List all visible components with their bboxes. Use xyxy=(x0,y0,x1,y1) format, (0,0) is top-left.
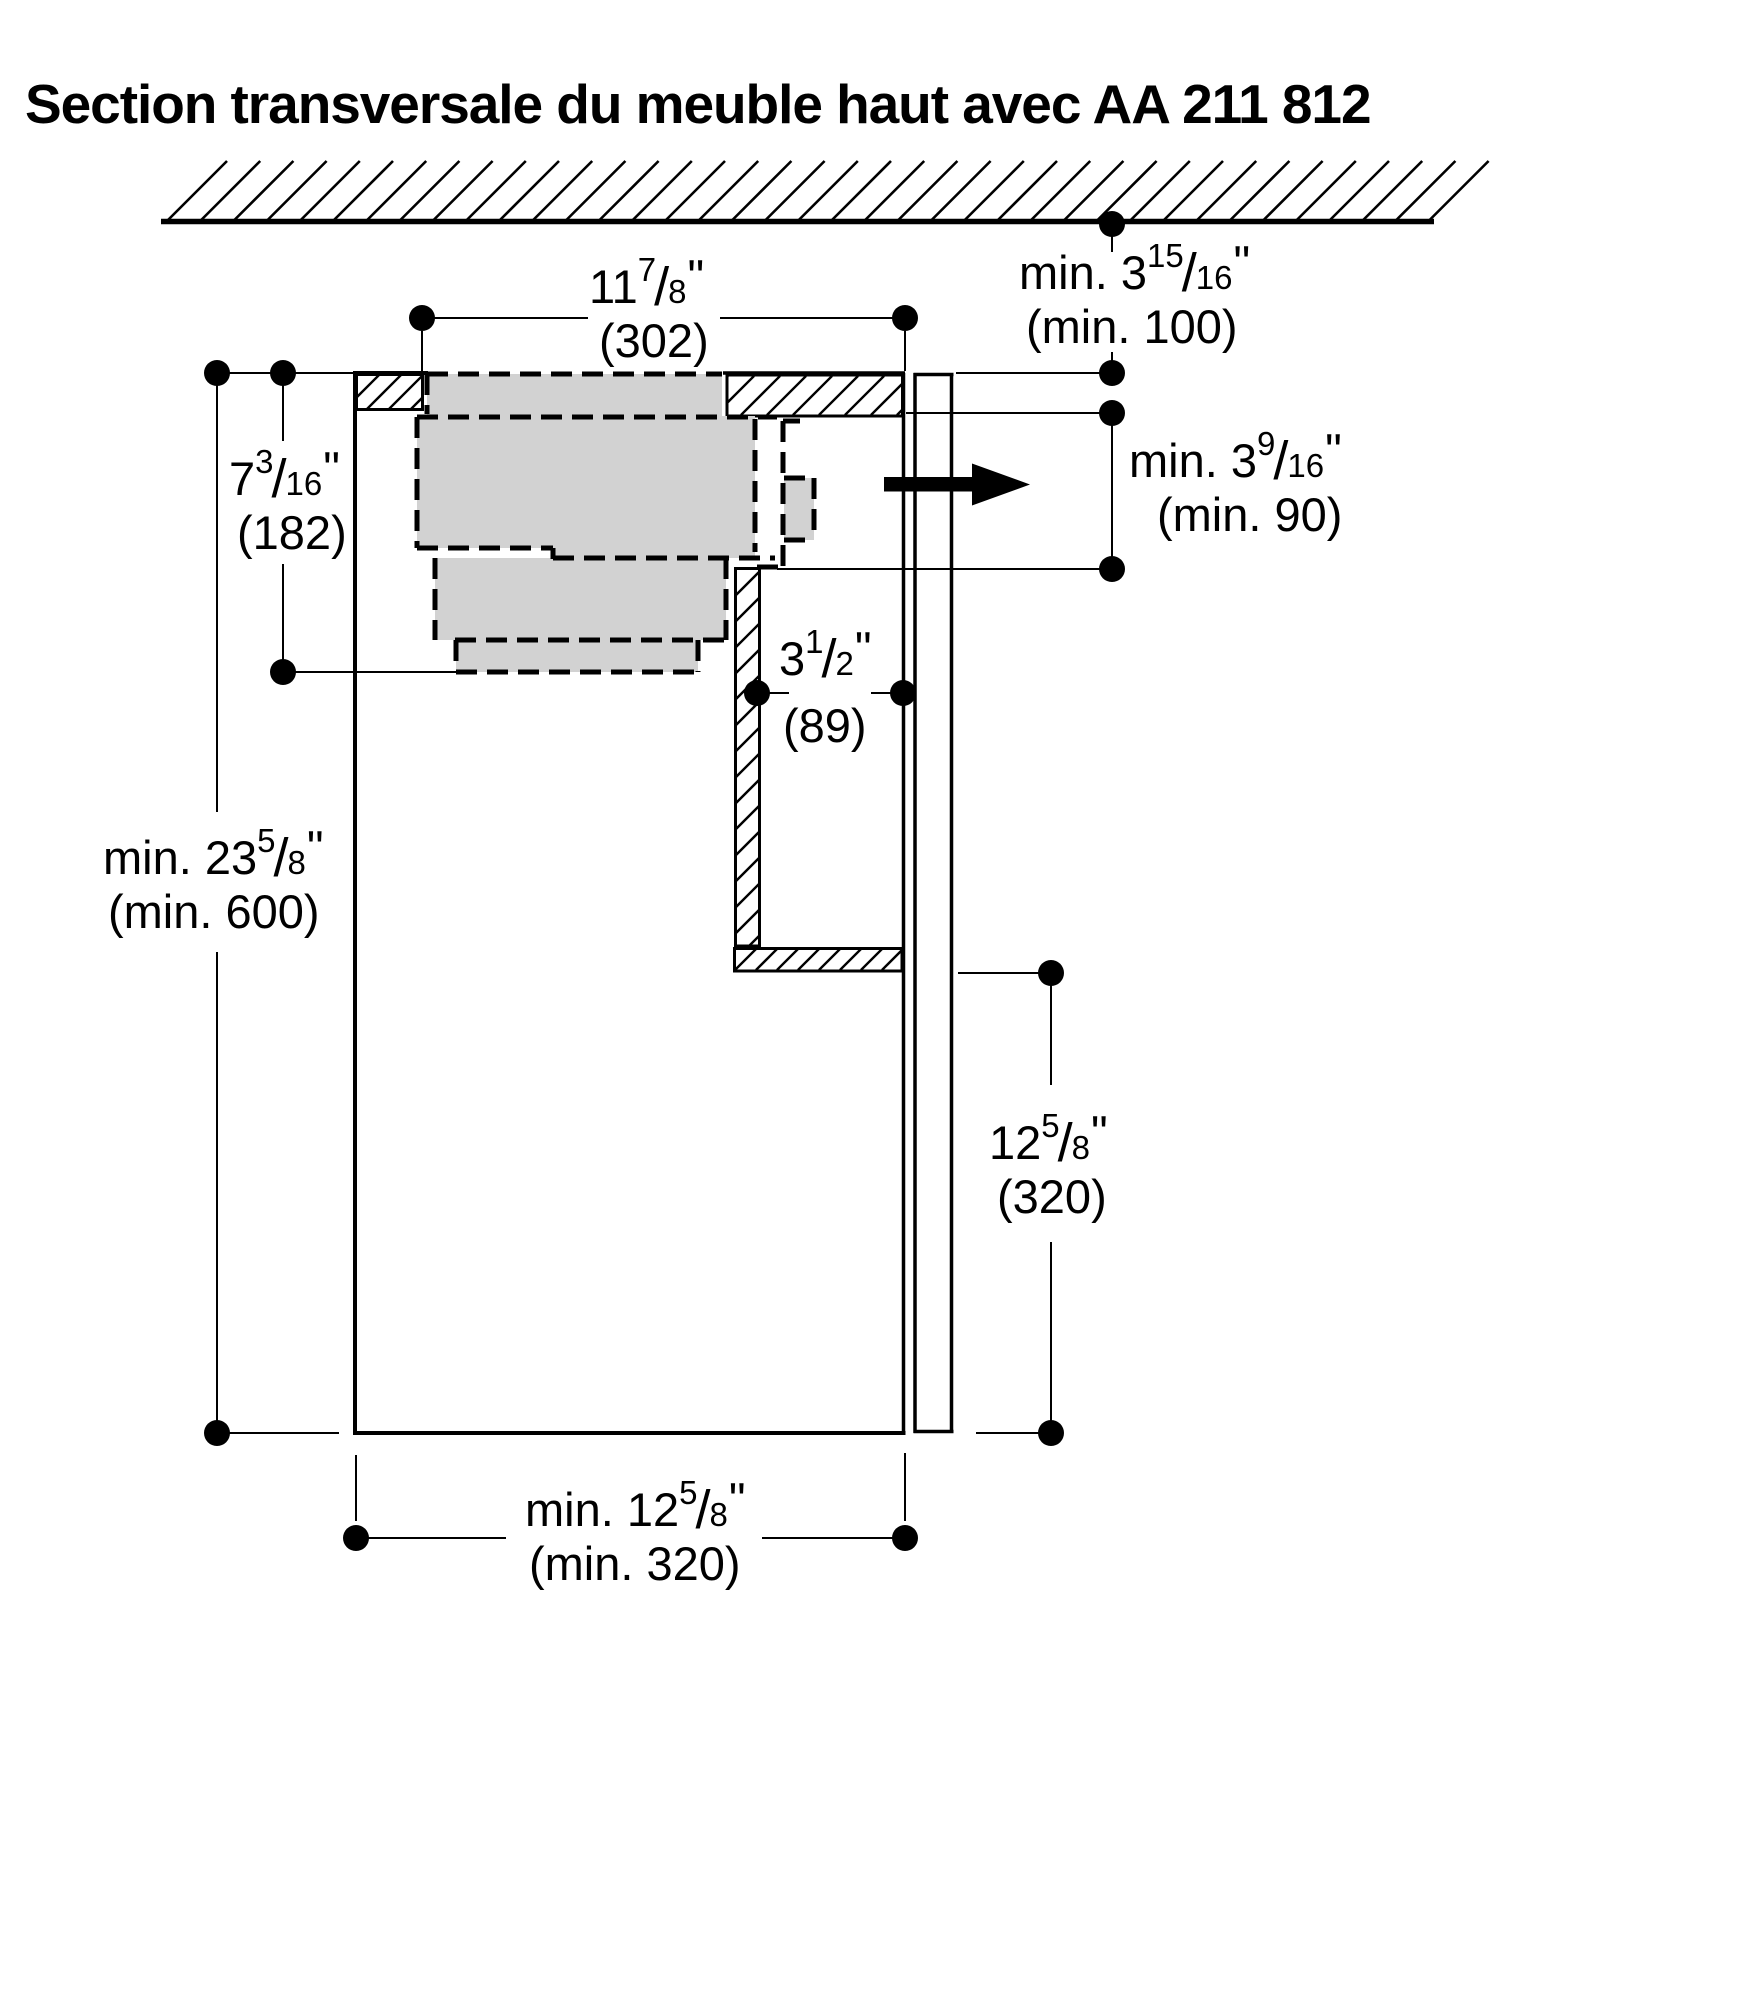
hood mid tier dashed bottom xyxy=(455,638,726,643)
hood body dashed right xyxy=(753,419,758,552)
dim min90 vertical xyxy=(1111,413,1113,569)
cabinet top right segment xyxy=(723,371,905,375)
dim min100 leader xyxy=(956,372,1112,374)
dim min600 top leader xyxy=(217,372,355,374)
svg-text:(182): (182) xyxy=(237,506,347,559)
dim 89 left stub xyxy=(757,692,789,694)
dim min100 line upper xyxy=(1111,224,1113,252)
svg-text:(320): (320) xyxy=(997,1170,1107,1223)
dim min320 left extension xyxy=(355,1455,357,1521)
dim 320 top leader xyxy=(958,972,1051,974)
dim min100 ceiling dot xyxy=(1099,211,1125,237)
dim min320 right dot xyxy=(892,1525,918,1551)
dim 89 right stub xyxy=(871,692,903,694)
cabinet bottom xyxy=(353,1431,906,1435)
hood bottom tier dashed left xyxy=(454,640,459,672)
dim 320 vertical lower xyxy=(1050,1242,1052,1433)
hood body dashed bottom right xyxy=(553,556,775,561)
dim 302 left extension xyxy=(421,331,423,371)
front panel right edge xyxy=(950,373,954,1433)
hood mid tier gray xyxy=(435,558,726,640)
exhaust direction arrow xyxy=(884,464,1030,506)
svg-text:(min. 320): (min. 320) xyxy=(529,1537,741,1590)
hood duct spout dashed bottom xyxy=(757,565,787,570)
svg-text:(min. 90): (min. 90) xyxy=(1157,488,1342,541)
hood top flange dashed top xyxy=(427,372,722,377)
hood main body gray xyxy=(417,416,755,548)
front panel bottom edge xyxy=(914,1430,954,1434)
dim min90 bottom leader xyxy=(777,568,1112,570)
dim min600 vertical upper xyxy=(216,373,218,812)
cabinet left wall xyxy=(353,371,357,1435)
cabinet top left segment xyxy=(353,371,428,375)
dim min600 bottom leader xyxy=(217,1432,339,1434)
top frame left hatched box xyxy=(357,375,423,410)
dim 182 bottom dot xyxy=(270,659,296,685)
hood top flange dashed left xyxy=(425,374,430,414)
dim min600 top dot xyxy=(204,360,230,386)
dim 302 line right seg xyxy=(720,317,905,319)
hood bottom tier gray xyxy=(456,640,698,672)
dim min100 line lower xyxy=(1111,352,1113,373)
hood body dashed step xyxy=(551,548,556,559)
hood damper dashed top xyxy=(784,476,815,481)
dim 182 bottom leader xyxy=(283,671,456,673)
cabinet right wall xyxy=(902,373,906,1435)
hood bottom tier dashed right xyxy=(696,640,701,672)
dim 320 bottom leader xyxy=(976,1432,1051,1434)
svg-text:(89): (89) xyxy=(783,699,867,752)
dim min600 bottom dot xyxy=(204,1420,230,1446)
dim min320 right extension xyxy=(904,1453,906,1521)
hood body step gray xyxy=(553,548,755,558)
hood damper dashed bottom xyxy=(784,538,815,543)
dim 302 line left seg xyxy=(422,317,588,319)
hood damper gray xyxy=(784,478,814,540)
dim 182 vertical upper xyxy=(282,373,284,441)
dim 302 left dot xyxy=(409,305,435,331)
dim 89 left dot xyxy=(744,680,770,706)
dim 89 right dot xyxy=(890,680,916,706)
dim 320 top dot xyxy=(1038,960,1064,986)
hood bottom tier dashed bottom xyxy=(456,670,698,675)
dim min90 top dot xyxy=(1099,400,1125,426)
dim 302 right extension xyxy=(904,331,906,371)
hood duct spout dashed top stub xyxy=(783,419,800,424)
dim min90 bottom dot xyxy=(1099,556,1125,582)
dim min320 left dot xyxy=(343,1525,369,1551)
front panel top edge xyxy=(914,373,954,377)
dim 302 right dot xyxy=(892,305,918,331)
dim 320 bottom dot xyxy=(1038,1420,1064,1446)
hood mid tier dashed right xyxy=(724,558,729,640)
hood mid tier dashed left xyxy=(433,558,438,640)
dim 182 top dot xyxy=(270,360,296,386)
dim 182 vertical lower xyxy=(282,564,284,672)
dim min320 line right seg xyxy=(762,1537,905,1539)
svg-text:(min. 600): (min. 600) xyxy=(108,885,320,938)
top frame right hatched box xyxy=(727,375,903,416)
dim min600 vertical lower xyxy=(216,952,218,1433)
hood top flange gray xyxy=(427,374,722,416)
svg-text:(min. 100): (min. 100) xyxy=(1026,300,1238,353)
hood body dashed left xyxy=(415,417,420,548)
duct channel bottom hatched strip xyxy=(735,949,903,972)
dim min90 top leader xyxy=(906,412,1112,414)
hood duct spout dashed vertical xyxy=(781,421,786,566)
svg-text:(302): (302) xyxy=(599,314,709,367)
ceiling with hatching xyxy=(161,161,1489,222)
hood body dashed bottom left xyxy=(417,546,553,551)
duct channel vertical hatched strip xyxy=(736,569,760,947)
svg-text:Section transversale du meuble: Section transversale du meuble haut avec… xyxy=(25,73,1371,135)
hood damper dashed right xyxy=(812,478,817,540)
front panel left edge xyxy=(913,373,917,1433)
hood body dashed top xyxy=(417,415,777,420)
dim 320 vertical upper xyxy=(1050,973,1052,1085)
dim min100 bottom dot xyxy=(1099,360,1125,386)
dim min320 line left seg xyxy=(356,1537,506,1539)
